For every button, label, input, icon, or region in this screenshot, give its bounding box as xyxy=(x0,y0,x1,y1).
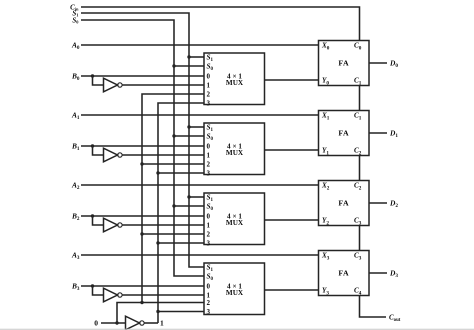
full adder FA1 xyxy=(319,111,370,157)
svg-text:0: 0 xyxy=(207,213,211,221)
svg-text:0: 0 xyxy=(94,319,98,328)
wire MUX0 output to FA0 pin Y0 xyxy=(265,79,319,81)
wire B0 branch to inverter U1 xyxy=(93,76,104,85)
bus logic-0 (feeds MUX data input 2) xyxy=(117,94,204,323)
svg-text:MUX: MUX xyxy=(226,79,244,87)
svg-text:2: 2 xyxy=(207,231,211,239)
wire B1 branch to inverter U2 xyxy=(93,146,104,155)
wire inverter U2 output to MUX1 input 1 xyxy=(122,154,204,156)
wire S1 tap to MUX2 xyxy=(189,196,204,198)
svg-text:2: 2 xyxy=(207,161,211,169)
wire A3 to FA3 pin X3 xyxy=(81,254,319,256)
wire logic-1 tap to MUX2 input 3 xyxy=(158,242,204,244)
wire carry C3 from FA2 to FA3 xyxy=(359,226,361,251)
wire sum output D1 xyxy=(369,132,387,134)
output label D2 xyxy=(389,198,398,209)
input label A0 xyxy=(71,40,80,51)
junction S1 bus row 0 xyxy=(187,55,190,58)
svg-text:2: 2 xyxy=(207,299,211,307)
inverter U5 (generates logic 1) xyxy=(126,316,145,330)
wire A0 to FA0 pin X0 xyxy=(81,44,319,46)
input label B1 xyxy=(71,141,80,152)
wire S1 tap to MUX1 xyxy=(189,126,204,128)
wire logic-1 tap to MUX3 input 3 xyxy=(158,311,204,313)
net label Cin xyxy=(70,3,79,11)
junction logic-0 bus at bottom row xyxy=(140,301,143,304)
junction S0 bus row 1 xyxy=(172,134,175,137)
junction B0 branch xyxy=(91,74,94,77)
svg-text:0: 0 xyxy=(207,73,211,81)
wire logic-1 tap to MUX1 input 3 xyxy=(158,172,204,174)
wire carry C1 from FA0 to FA1 xyxy=(359,86,361,111)
wire sum output D0 xyxy=(369,62,387,64)
constant label 0 (logic zero source) xyxy=(94,319,98,328)
junction logic-0 bus row 2 xyxy=(140,232,143,235)
junction B1 branch xyxy=(91,144,94,147)
inverter U3 (B2 complement) xyxy=(104,218,123,232)
svg-text:FA: FA xyxy=(338,129,349,138)
junction B3 branch xyxy=(91,284,94,287)
wire B3 branch to inverter U4 xyxy=(93,286,104,295)
junction S1 bus row 1 xyxy=(187,125,190,128)
4x1 mux MUX0 xyxy=(204,53,265,108)
inverter U2 (B1 complement) xyxy=(104,148,123,162)
wire A1 to FA1 pin X1 xyxy=(81,114,319,116)
wire sum output D3 xyxy=(369,272,387,274)
junction logic-1 bus at bottom row xyxy=(156,310,159,313)
junction S1 bus row 2 xyxy=(187,195,190,198)
wire S1 tap to MUX0 xyxy=(189,56,204,58)
svg-text:FA: FA xyxy=(338,269,349,278)
full adder FA0 xyxy=(319,41,370,87)
svg-text:3: 3 xyxy=(207,170,211,178)
bus logic-1 (feeds MUX data input 3) xyxy=(158,103,204,323)
constant label 1 (logic one) xyxy=(160,319,164,328)
junction logic-0 branch xyxy=(115,321,118,324)
svg-text:0: 0 xyxy=(207,143,211,151)
wire inverter U5 output to logic-1 bus xyxy=(144,322,158,324)
wire logic-0 tap to MUX3 input 2 xyxy=(142,302,204,304)
svg-text:1: 1 xyxy=(207,152,211,160)
wire B2 branch to inverter U3 xyxy=(93,216,104,225)
input label A2 xyxy=(71,180,80,191)
wire carry C2 from FA1 to FA2 xyxy=(359,156,361,181)
wire inverter U3 output to MUX2 input 1 xyxy=(122,224,204,226)
svg-text:1: 1 xyxy=(160,319,164,328)
wire B3 to MUX3 input 0 xyxy=(81,285,204,287)
svg-text:MUX: MUX xyxy=(226,289,244,297)
output label D0 xyxy=(389,58,398,69)
svg-text:MUX: MUX xyxy=(226,149,244,157)
4x1 mux MUX3 xyxy=(204,263,265,316)
output label Cout xyxy=(389,313,401,323)
net label S1 xyxy=(72,9,78,17)
junction S0 bus row 2 xyxy=(172,204,175,207)
svg-text:MUX: MUX xyxy=(226,219,244,227)
input label B0 xyxy=(71,71,80,82)
wire sum output D2 xyxy=(369,202,387,204)
wire Cin to FA0 pin C0 xyxy=(81,7,360,41)
net label S0 xyxy=(72,16,79,24)
inverter U1 (B0 complement) xyxy=(104,78,123,92)
wire MUX2 output to FA2 pin Y2 xyxy=(265,219,319,221)
input label B2 xyxy=(71,211,80,222)
4x1 mux MUX2 xyxy=(204,193,265,248)
wire MUX3 output to FA3 pin Y3 xyxy=(265,289,319,291)
inverter U4 (B3 complement) xyxy=(104,288,123,302)
svg-text:2: 2 xyxy=(207,91,211,99)
wire B1 to MUX1 input 0 xyxy=(81,145,204,147)
svg-text:1: 1 xyxy=(207,222,211,230)
full adder FA2 xyxy=(319,181,370,227)
wire logic-0 tap to MUX2 input 2 xyxy=(142,233,204,235)
junction logic-0 bus row 1 xyxy=(140,162,143,165)
wire S0 tap to MUX1 xyxy=(174,135,204,137)
wire S0 tap to MUX0 xyxy=(174,65,204,67)
junction B2 branch xyxy=(91,214,94,217)
wire B2 to MUX2 input 0 xyxy=(81,215,204,217)
wire carry C4 to Cout xyxy=(360,296,387,318)
input label B3 xyxy=(71,281,80,292)
svg-text:FA: FA xyxy=(338,199,349,208)
output label D1 xyxy=(389,128,398,139)
svg-text:1: 1 xyxy=(207,82,211,90)
wire logic-0 tap to MUX1 input 2 xyxy=(142,163,204,165)
input label A1 xyxy=(71,110,80,121)
wire B0 to MUX0 input 0 xyxy=(81,75,204,77)
svg-text:0: 0 xyxy=(207,283,211,291)
wire A2 to FA2 pin X2 xyxy=(81,184,319,186)
svg-text:FA: FA xyxy=(338,59,349,68)
svg-text:3: 3 xyxy=(207,240,211,248)
junction logic-1 bus row 2 xyxy=(156,241,159,244)
junction S0 bus row 0 xyxy=(172,64,175,67)
wire inverter U4 output to MUX3 input 1 xyxy=(122,294,204,296)
input label A3 xyxy=(71,250,80,261)
4x1 mux MUX1 xyxy=(204,123,265,178)
wire S0 tap to MUX2 xyxy=(174,205,204,207)
svg-text:3: 3 xyxy=(207,100,211,108)
svg-text:3: 3 xyxy=(207,308,211,316)
junction logic-1 bus row 1 xyxy=(156,171,159,174)
wire inverter U1 output to MUX0 input 1 xyxy=(122,84,204,86)
full adder FA3 xyxy=(319,251,370,297)
wire MUX1 output to FA1 pin Y1 xyxy=(265,149,319,151)
wire/bus S0 (select line 0) xyxy=(81,20,204,276)
output label D3 xyxy=(389,268,398,279)
wire logic-0 to inverter U5 xyxy=(101,322,126,324)
wire/bus S1 (select line 1) xyxy=(81,13,204,267)
